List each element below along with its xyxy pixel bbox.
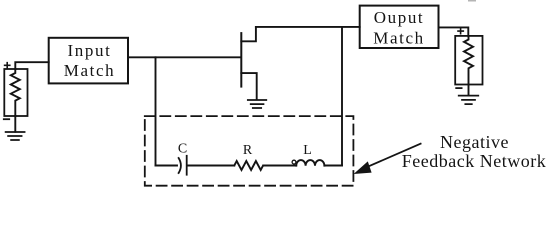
- transistor Q1: [240, 33, 242, 87]
- top wire drain to output match: [256, 26, 360, 28]
- source resistor RS box: [4, 69, 27, 116]
- svg-text:Match: Match: [373, 28, 424, 47]
- svg-text:L: L: [303, 143, 312, 158]
- load resistor RL box: [455, 36, 482, 85]
- feedback wire resistor to inductor: [263, 165, 296, 167]
- input match box: [49, 38, 128, 84]
- plus label (source): [5, 63, 10, 68]
- ground (transistor): [248, 100, 266, 108]
- svg-text:Negative: Negative: [440, 132, 509, 152]
- inductor L1: [296, 160, 324, 166]
- feedback wire to capacitor: [156, 165, 178, 167]
- svg-text:Feedback Network: Feedback Network: [402, 151, 546, 171]
- dashed feedback network box: [145, 116, 354, 186]
- inductor L1 dot: [292, 160, 296, 164]
- feedback right vertical wire: [341, 27, 343, 166]
- source resistor RS zigzag: [11, 69, 20, 116]
- plus label (load): [458, 29, 463, 34]
- svg-text:C: C: [178, 142, 187, 157]
- svg-text:Match: Match: [64, 61, 115, 80]
- feedback wire capacitor to resistor: [187, 165, 234, 167]
- svg-text:R: R: [243, 143, 253, 158]
- grey smudge top: [468, 0, 476, 2]
- wire input match to transistor gate: [128, 56, 241, 58]
- load resistor RL zigzag: [464, 36, 473, 85]
- capacitor C1: [179, 158, 181, 173]
- svg-text:Ouput: Ouput: [374, 8, 425, 27]
- minus label (load): [456, 87, 461, 89]
- ground (source): [14, 116, 16, 132]
- feedback left vertical wire: [155, 57, 157, 165]
- resistor R1 zigzag: [234, 161, 263, 170]
- minus label (source): [4, 118, 9, 120]
- svg-text:Input: Input: [68, 41, 112, 60]
- feedback wire inductor to right vertical: [324, 165, 342, 167]
- wire output match to load: [439, 27, 469, 36]
- annotation arrow: [368, 144, 421, 167]
- wire source to input match: [15, 62, 48, 69]
- output match box: [360, 6, 439, 48]
- ground (load): [468, 85, 470, 96]
